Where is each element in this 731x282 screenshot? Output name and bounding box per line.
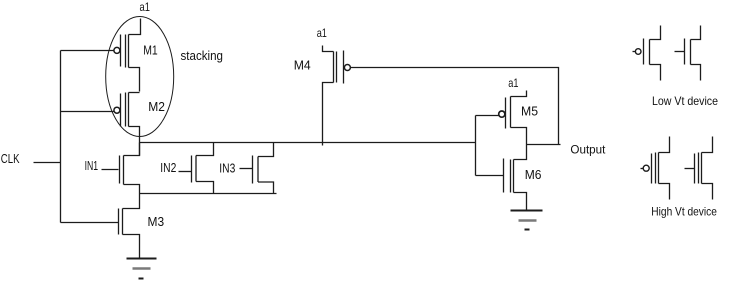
node CLK label — [1, 152, 20, 166]
transistor IN2 (low-Vt NMOS) — [160, 143, 213, 194]
transistor M5 (low-Vt PMOS) — [499, 91, 538, 145]
transistor M6 (high-Vt NMOS) — [476, 145, 542, 211]
wire inverter input — [475, 116, 477, 176]
svg-text:stacking: stacking — [181, 48, 224, 63]
transistor IN1 (low-Vt NMOS) — [85, 143, 140, 194]
node a1 label (above M5) — [508, 76, 518, 90]
transistor M2 (high-Vt PMOS) — [114, 93, 165, 156]
svg-text:Low Vt device: Low Vt device — [652, 94, 718, 108]
node a1 label (above M4) — [317, 26, 327, 40]
stacking label — [181, 48, 224, 63]
wire CLK to rail — [34, 162, 61, 164]
svg-text:CLK: CLK — [1, 152, 20, 166]
svg-text:M1: M1 — [143, 42, 158, 57]
transistor M4 (high-Vt PMOS keeper, mirrored) — [294, 46, 351, 146]
legend: low-Vt NMOS symbol — [675, 26, 701, 81]
svg-text:M6: M6 — [525, 167, 542, 182]
svg-text:M2: M2 — [148, 99, 165, 114]
legend: high-Vt NMOS symbol — [685, 137, 713, 200]
node Output label — [570, 142, 606, 156]
legend: high-Vt PMOS symbol — [641, 137, 670, 200]
svg-text:a1: a1 — [508, 76, 518, 90]
wire M4 gate to output node — [351, 68, 559, 145]
transistor M1 (high-Vt PMOS) — [114, 19, 158, 92]
transistor IN3 (low-Vt NMOS) — [219, 143, 273, 194]
wire rail to M3 gate — [61, 222, 119, 224]
wire common source node — [140, 193, 277, 195]
svg-text:Output: Output — [570, 142, 606, 156]
wire rail to M1 gate — [61, 50, 114, 52]
wire input to M5 bubble — [476, 115, 499, 117]
wire left rail — [60, 51, 62, 223]
wire rail to M2 gate — [61, 111, 114, 113]
wire dynamic-node bus — [140, 142, 476, 144]
svg-text:High Vt device: High Vt device — [651, 205, 717, 219]
svg-text:IN1: IN1 — [85, 158, 99, 173]
svg-text:M4: M4 — [294, 58, 311, 73]
ground (below M3) — [127, 259, 157, 279]
svg-text:a1: a1 — [140, 0, 151, 14]
svg-text:M5: M5 — [521, 104, 538, 119]
node a1 label (top) — [140, 0, 151, 14]
transistor M3 (low-Vt NMOS) — [119, 194, 165, 259]
wire output node — [527, 144, 561, 146]
svg-text:M3: M3 — [148, 214, 165, 229]
svg-text:IN3: IN3 — [219, 160, 235, 175]
svg-text:IN2: IN2 — [160, 160, 176, 175]
legend: low-Vt PMOS symbol — [633, 26, 661, 81]
legend label Low Vt device — [652, 94, 718, 108]
legend label High Vt device — [651, 205, 717, 219]
ground (below M6) — [511, 211, 543, 230]
stacking ellipse annotation — [106, 17, 174, 137]
svg-text:a1: a1 — [317, 26, 327, 40]
